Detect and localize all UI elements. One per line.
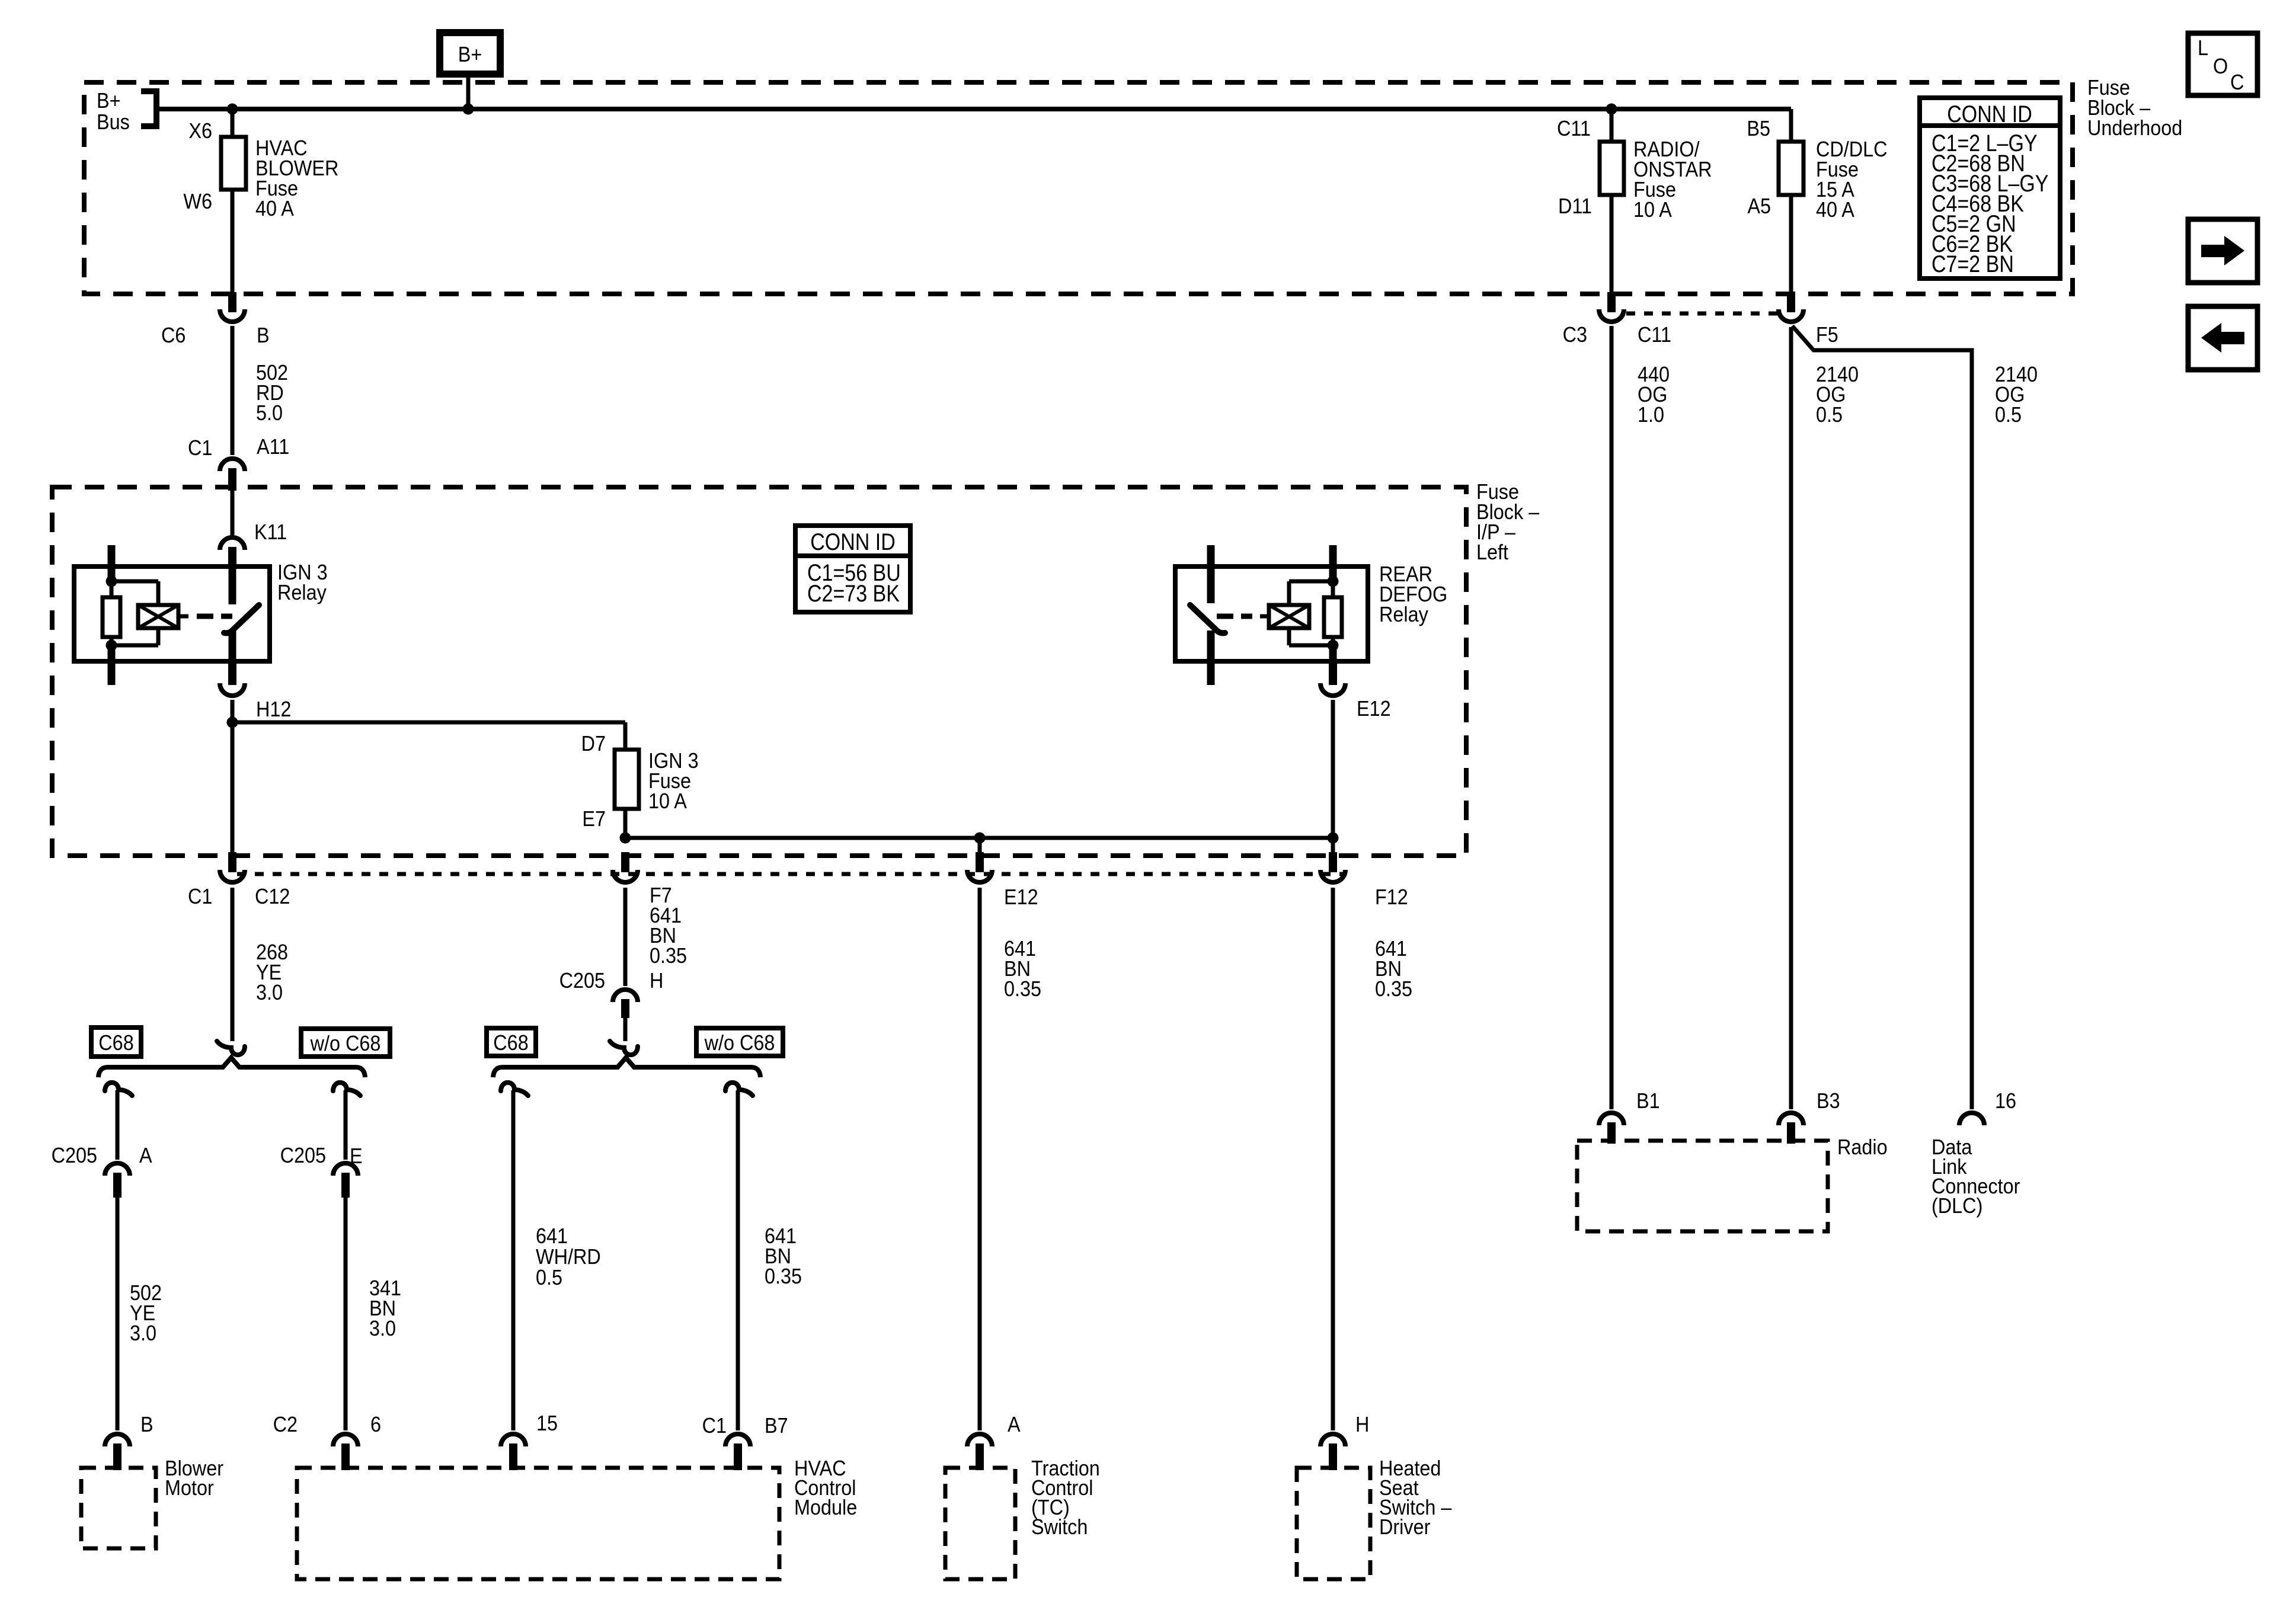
option brace blower xyxy=(98,1058,365,1077)
svg-text:C205: C205 xyxy=(52,1144,97,1167)
svg-text:0.35: 0.35 xyxy=(650,944,687,968)
connector F7 xyxy=(621,852,629,872)
relay REAR DEFOG resistor pin top xyxy=(1329,545,1337,584)
B+ Bus bracket xyxy=(141,88,156,129)
svg-text:(DLC): (DLC) xyxy=(1932,1194,1982,1218)
svg-text:10 A: 10 A xyxy=(648,789,687,813)
connector H heated xyxy=(1320,1434,1345,1446)
svg-text:Radio: Radio xyxy=(1837,1135,1888,1159)
wire H12 to IGN3 fuse xyxy=(232,722,625,750)
wire coil feed bottom xyxy=(111,628,158,645)
svg-text:B7: B7 xyxy=(765,1414,788,1438)
svg-text:K11: K11 xyxy=(254,520,287,544)
connector K11 xyxy=(220,537,245,550)
option wire hook C68 hvac xyxy=(501,1083,528,1096)
svg-text:Module: Module xyxy=(794,1496,857,1519)
box Radio xyxy=(1577,1141,1828,1231)
svg-text:Relay: Relay xyxy=(277,581,327,604)
svg-text:X6: X6 xyxy=(188,119,212,143)
connector C2 6 xyxy=(333,1434,358,1446)
relay REAR DEFOG switch stub bottom xyxy=(1207,663,1215,685)
wire E12 to junction xyxy=(1331,700,1335,838)
svg-text:B+: B+ xyxy=(458,43,482,66)
arrow right xyxy=(2201,236,2244,265)
wire C205 H to branch xyxy=(623,1018,628,1041)
svg-text:E7: E7 xyxy=(582,807,606,831)
junction E7 xyxy=(620,833,631,844)
wire option C68 blower xyxy=(116,1090,120,1160)
junction bus-HVAC fuse xyxy=(227,104,238,115)
wire end hook C12 branch xyxy=(217,1041,245,1055)
option wire hook C68 blower xyxy=(105,1083,132,1096)
fuse block underhood dashed box xyxy=(84,82,2073,294)
svg-text:B: B xyxy=(140,1413,154,1436)
svg-text:C2: C2 xyxy=(273,1413,298,1436)
wire coil feed bottom rear defog xyxy=(1289,628,1333,645)
svg-text:H: H xyxy=(1355,1413,1369,1436)
svg-text:B3: B3 xyxy=(1817,1089,1840,1113)
junction bus-RADIO fuse xyxy=(1606,104,1617,115)
svg-text:A5: A5 xyxy=(1747,194,1771,218)
svg-text:C2=73 BK: C2=73 BK xyxy=(807,580,900,606)
svg-text:5.0: 5.0 xyxy=(256,401,283,425)
relay actuating link dashes rear defog xyxy=(1217,614,1252,619)
svg-text:E12: E12 xyxy=(1357,697,1391,721)
svg-text:B: B xyxy=(257,324,270,347)
svg-text:Switch: Switch xyxy=(1031,1515,1088,1539)
svg-text:H: H xyxy=(650,969,663,993)
svg-text:Underhood: Underhood xyxy=(2087,116,2182,140)
wire option w/o C68 blower xyxy=(344,1090,348,1160)
wire C12 to branch xyxy=(231,888,235,1041)
svg-text:O: O xyxy=(2213,55,2228,78)
fuse IGN 3 10A xyxy=(615,750,639,809)
option wire hook w/o C68 blower xyxy=(333,1083,360,1096)
svg-text:A11: A11 xyxy=(257,435,289,459)
wire RADIO fuse to C3 xyxy=(1610,195,1614,293)
fuse CD/DLC 15A xyxy=(1779,142,1803,195)
svg-text:C205: C205 xyxy=(559,969,605,993)
wire bus corner to CD/DLC fuse xyxy=(1789,109,1793,142)
option tag C68 box xyxy=(91,1028,141,1057)
wire HVAC fuse to C6 xyxy=(231,190,235,293)
wire end hook F7 branch xyxy=(610,1041,638,1055)
connector C205 H xyxy=(613,990,638,1002)
svg-text:H12: H12 xyxy=(256,697,291,721)
svg-text:CONN ID: CONN ID xyxy=(810,528,896,555)
wire 641 BN to H xyxy=(1331,888,1335,1430)
box HVAC Control Module xyxy=(297,1468,779,1579)
svg-text:C68: C68 xyxy=(98,1031,133,1055)
connector 15 xyxy=(501,1434,526,1446)
svg-text:w/o C68: w/o C68 xyxy=(310,1032,381,1055)
svg-text:C1: C1 xyxy=(702,1414,727,1438)
wire CD fuse to F5 xyxy=(1789,195,1793,293)
connector B1 xyxy=(1599,1113,1624,1125)
svg-text:Bus: Bus xyxy=(97,110,130,134)
svg-text:16: 16 xyxy=(1995,1089,2016,1113)
svg-text:Relay: Relay xyxy=(1379,603,1429,626)
wire IGN3 fuse to junction xyxy=(623,809,628,838)
svg-text:W6: W6 xyxy=(183,190,212,213)
svg-text:CONN ID: CONN ID xyxy=(1947,100,2032,127)
connector C205 E xyxy=(333,1163,358,1176)
svg-text:C1: C1 xyxy=(188,885,212,908)
svg-text:6: 6 xyxy=(370,1413,381,1436)
conn id table I/P xyxy=(795,526,910,612)
wire coil feed top rear defog xyxy=(1289,581,1333,605)
B+ power symbol xyxy=(440,33,500,74)
wire coil lead xyxy=(178,614,188,619)
wire 440 OG radio B1 xyxy=(1610,326,1614,1109)
junction H12 xyxy=(227,717,238,728)
svg-text:D11: D11 xyxy=(1558,194,1592,218)
wire 502 RD xyxy=(231,326,235,455)
svg-text:C205: C205 xyxy=(280,1144,326,1167)
svg-text:L: L xyxy=(2198,36,2208,60)
conn id table underhood xyxy=(1920,98,2060,279)
svg-text:C68: C68 xyxy=(493,1031,528,1055)
svg-text:C6: C6 xyxy=(161,324,186,347)
connector F5 xyxy=(1787,292,1795,312)
svg-text:E12: E12 xyxy=(1004,885,1038,909)
svg-text:40 A: 40 A xyxy=(255,197,294,220)
connector H12 xyxy=(228,663,236,685)
svg-text:w/o C68: w/o C68 xyxy=(704,1031,775,1055)
relay actuating link dashes xyxy=(197,614,232,619)
svg-text:D7: D7 xyxy=(581,732,606,756)
svg-text:B1: B1 xyxy=(1636,1089,1660,1113)
svg-text:10 A: 10 A xyxy=(1633,198,1672,222)
option brace hvac xyxy=(493,1058,760,1077)
relay IGN 3 box xyxy=(74,566,270,661)
box Traction Control Switch xyxy=(945,1468,1015,1579)
wire B+ feed xyxy=(466,78,471,109)
svg-text:A: A xyxy=(139,1144,152,1167)
connector E12 bottom xyxy=(978,838,982,853)
svg-text:C7=2 BN: C7=2 BN xyxy=(1932,250,2014,277)
wire bus to RADIO fuse xyxy=(1610,111,1614,142)
wire A11 to K11 xyxy=(231,491,235,535)
junction E12 branch xyxy=(974,833,986,844)
junction coil top xyxy=(106,576,117,587)
relay IGN 3 switch pin xyxy=(229,567,236,604)
svg-text:0.5: 0.5 xyxy=(536,1266,562,1289)
svg-text:C3: C3 xyxy=(1563,323,1587,347)
wire E7 run to F12 xyxy=(625,836,1333,840)
svg-text:0.5: 0.5 xyxy=(1995,403,2022,427)
junction coil bottom xyxy=(106,640,117,651)
svg-text:40 A: 40 A xyxy=(1816,198,1854,222)
wire 502 YE xyxy=(116,1198,120,1430)
svg-text:E: E xyxy=(350,1144,363,1168)
svg-text:Left: Left xyxy=(1476,540,1508,564)
svg-text:C11: C11 xyxy=(1557,117,1591,140)
coil REAR DEFOG relay xyxy=(1269,605,1309,628)
svg-text:Driver: Driver xyxy=(1379,1515,1430,1539)
option tag C68 box hvac xyxy=(487,1028,536,1056)
arrow left box xyxy=(2188,306,2257,370)
svg-text:3.0: 3.0 xyxy=(256,981,283,1004)
svg-text:C: C xyxy=(2230,71,2244,94)
relay IGN 3 coil pin top xyxy=(108,545,116,584)
svg-text:641: 641 xyxy=(536,1224,568,1248)
svg-text:F5: F5 xyxy=(1816,323,1838,347)
fuse HVAC BLOWER 40A xyxy=(221,137,246,190)
wire coil lead rear defog xyxy=(1260,614,1269,619)
wire 2140 OG radio B3 xyxy=(1789,327,1793,1109)
wire B+ bus xyxy=(159,107,1791,111)
option tag w/o C68 box hvac xyxy=(696,1028,783,1056)
connector C205 A xyxy=(105,1163,130,1176)
fuse block I/P left dashed box xyxy=(52,487,1466,856)
wire H12 to C12 xyxy=(231,722,235,853)
box Blower Motor xyxy=(81,1468,156,1548)
connector E12 relay xyxy=(1329,663,1337,685)
svg-text:A: A xyxy=(1008,1413,1021,1436)
relay IGN 3 switch arm xyxy=(224,605,259,633)
svg-text:C1: C1 xyxy=(188,436,212,460)
option tag w/o C68 box xyxy=(301,1029,390,1057)
box Heated Seat Switch xyxy=(1297,1468,1370,1579)
connector C6 B xyxy=(228,292,236,312)
connector B blower xyxy=(105,1434,130,1446)
relay IGN 3 coil pin bottom xyxy=(108,646,116,685)
fuse RADIO/ONSTAR 10A xyxy=(1600,142,1624,195)
connector F12 xyxy=(1331,838,1335,853)
svg-text:3.0: 3.0 xyxy=(130,1321,156,1345)
coil IGN 3 relay xyxy=(138,605,178,628)
connector C1 A11 xyxy=(220,459,245,471)
svg-text:0.35: 0.35 xyxy=(765,1265,802,1288)
connector 16 DLC xyxy=(1959,1113,1984,1125)
svg-text:C11: C11 xyxy=(1638,323,1671,347)
svg-text:Motor: Motor xyxy=(165,1476,214,1500)
junction F12 branch xyxy=(1328,833,1339,844)
junction bus-B+ xyxy=(463,104,474,115)
wire F7 to C205 H xyxy=(623,888,628,986)
svg-text:0.5: 0.5 xyxy=(1816,403,1843,427)
svg-text:F12: F12 xyxy=(1375,885,1408,909)
connector A tc xyxy=(967,1434,992,1446)
svg-text:WH/RD: WH/RD xyxy=(536,1245,601,1269)
svg-text:B+: B+ xyxy=(97,89,121,113)
relay REAR DEFOG switch arm xyxy=(1190,605,1225,633)
svg-text:1.0: 1.0 xyxy=(1638,403,1664,427)
svg-text:3.0: 3.0 xyxy=(369,1317,396,1340)
wire coil feed top xyxy=(111,581,158,605)
wire 641 BN to B7 xyxy=(736,1090,740,1430)
option wire hook w/o C68 hvac xyxy=(725,1083,753,1096)
svg-text:0.35: 0.35 xyxy=(1375,977,1412,1001)
svg-text:B5: B5 xyxy=(1747,117,1770,140)
resistor IGN 3 relay xyxy=(103,597,120,637)
svg-text:0.35: 0.35 xyxy=(1004,977,1041,1001)
wire bus to HVAC fuse xyxy=(231,111,235,137)
dotted connector row I/P xyxy=(237,872,1347,876)
connector B3 xyxy=(1779,1113,1803,1125)
wire 641 BN to A xyxy=(978,888,982,1430)
wire 641 WH/RD xyxy=(511,1090,516,1430)
wire 341 BN xyxy=(344,1198,348,1430)
svg-text:C12: C12 xyxy=(255,885,290,908)
wire 2140 OG to DLC xyxy=(1792,326,1972,1109)
svg-text:15: 15 xyxy=(536,1411,558,1435)
resistor REAR DEFOG relay xyxy=(1324,597,1342,637)
connector C1 B7 xyxy=(725,1434,750,1446)
relay REAR DEFOG box xyxy=(1175,566,1368,661)
connector C1 C12 xyxy=(231,853,235,856)
LOC legend box xyxy=(2188,33,2257,95)
relay REAR DEFOG switch pin top xyxy=(1207,545,1215,603)
arrow left xyxy=(2201,323,2244,353)
connector C3 C11 xyxy=(1607,292,1616,312)
dotted connector row underhood xyxy=(1626,312,1777,316)
arrow right box xyxy=(2188,219,2257,283)
